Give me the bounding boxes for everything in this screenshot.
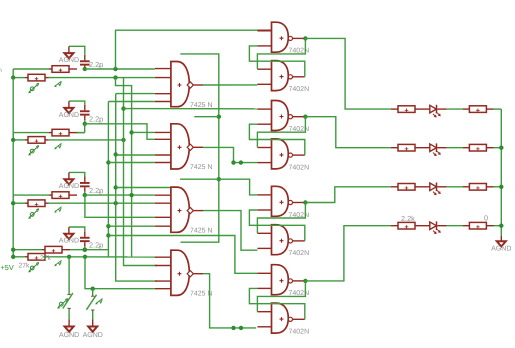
resistor R9 <box>391 108 398 110</box>
node A1 output <box>303 36 307 40</box>
wire VA top to gate1.in4 <box>108 101 154 103</box>
ground AGND S1 <box>65 327 74 332</box>
resistor R15 <box>463 186 469 188</box>
ground AGND S2 <box>88 327 97 332</box>
wire latch A out to LED row1 <box>305 38 391 109</box>
node C1 output <box>303 200 307 204</box>
wire latch B out to LED row2 <box>305 117 391 148</box>
diode LED4 <box>430 222 437 230</box>
resistor R10 <box>391 147 398 149</box>
svg-text:27k: 27k <box>19 263 31 270</box>
wire channel 4 left bend <box>12 250 14 257</box>
wire VD tap to gate2.in1 <box>129 130 133 134</box>
wire C3 top to AGND <box>69 172 85 176</box>
net label channel 2 <box>29 145 39 154</box>
resistor R16 <box>463 225 469 227</box>
wire D cross-couple 1 <box>257 281 305 312</box>
wire D cross-couple 2 <box>249 288 304 319</box>
resistor R3a <box>13 194 49 196</box>
svg-text:AGND: AGND <box>59 238 79 245</box>
wire C cross-couple 2 <box>249 210 304 241</box>
wire R16 to ground rail <box>494 225 502 227</box>
wire channel 3 left bend <box>12 195 14 203</box>
wire VD riser from ch1 row2 <box>116 78 132 257</box>
node C4 junction <box>83 248 87 252</box>
diode LED3 <box>430 183 437 191</box>
svg-text:0: 0 <box>484 214 488 223</box>
transistor substitute: 7402 NOR gate B1 <box>257 108 271 110</box>
op-amp substitute: 7425 NOR gate U1B <box>155 131 171 133</box>
wire ch4 row2 down to gate4.in4 <box>85 257 155 289</box>
wire ch3 row2 to gate3.in2 <box>49 202 155 204</box>
wire channel 2 left bend <box>12 133 14 140</box>
wire VA tap gate2.in4 <box>108 162 154 164</box>
wire latch D out to LED row4 <box>305 226 391 281</box>
capacitor C1 2.2n <box>84 55 86 61</box>
wire gate3 out to latch C <box>203 211 257 251</box>
svg-text:7402N: 7402N <box>289 164 310 171</box>
wire C cross-couple 1 <box>257 203 305 234</box>
resistor R1a <box>13 68 49 70</box>
wire B cross-couple 2 <box>249 124 304 155</box>
wire latch C out to LED row3 <box>305 187 391 203</box>
wire R15 to ground rail <box>494 186 502 188</box>
svg-text:7402N: 7402N <box>289 329 310 336</box>
wire VB tap gate3 strobe <box>116 187 171 189</box>
wire ch2 row1 bend up to cap junction <box>77 132 85 134</box>
svg-text:AGND: AGND <box>83 332 103 339</box>
wire A cross-couple 1 <box>257 38 305 69</box>
wire LED1 to R13 <box>447 108 463 110</box>
wire strobe tap to 7402 C1 input <box>180 179 257 195</box>
wire channel 1 left bend <box>12 69 14 78</box>
ground AGND channel 1 <box>64 53 73 58</box>
wire gate4 out to latch D <box>203 274 256 328</box>
diode LED1 <box>430 105 437 113</box>
svg-text:AGND: AGND <box>59 183 79 190</box>
resistor R1b <box>13 77 25 79</box>
svg-text:7425 N: 7425 N <box>190 228 213 235</box>
node B1 output <box>303 115 307 119</box>
wire VA vertical <box>107 102 109 258</box>
transistor substitute: 7402 NOR gate A2 <box>257 68 271 70</box>
ground AGND right <box>497 241 506 246</box>
wire left supply bus <box>12 78 14 257</box>
wire ch2 row2 to VC <box>49 139 124 141</box>
op-amp substitute: 7425 NOR gate U1C <box>155 194 171 196</box>
node C1 junction <box>83 67 87 71</box>
transistor substitute: 7402 NOR gate B2 <box>257 147 271 149</box>
wire VB top to gate1.in3 <box>116 93 155 95</box>
resistor R2b <box>13 139 25 141</box>
resistor R2a <box>13 132 49 134</box>
wire ch3 junction down to gate3.in3 <box>85 195 155 217</box>
wire C1 top to AGND <box>69 46 85 55</box>
wire ch1 row1 to gate1.in1 and top loop <box>85 68 155 70</box>
wire VB vertical <box>116 94 157 282</box>
svg-text:27k: 27k <box>40 255 52 262</box>
wire C2 top to AGND <box>69 101 85 105</box>
wire strobe net above gates <box>180 54 219 242</box>
wire R13 to ground rail <box>494 108 502 110</box>
transistor substitute: 7402 NOR gate A1 <box>257 30 271 32</box>
transistor substitute: 7402 NOR gate D1 <box>257 272 271 274</box>
node D1 output <box>303 279 307 283</box>
wire VA tap gate3.in4 <box>108 225 154 227</box>
svg-text:7425 N: 7425 N <box>190 164 213 171</box>
net label channel 1 <box>29 83 39 92</box>
svg-text:AGND: AGND <box>491 246 511 253</box>
wire VA tap to 7402 D1 input <box>108 236 257 274</box>
svg-text:AGND: AGND <box>59 112 79 119</box>
net label channel 3 <box>29 209 39 218</box>
svg-text:AGND: AGND <box>59 332 79 339</box>
svg-text:7402N: 7402N <box>289 250 310 257</box>
wire A cross-couple 2 <box>249 46 304 77</box>
diode LED2 <box>430 144 437 152</box>
resistor R12 <box>391 225 398 227</box>
wire LED4 to R16 <box>447 225 463 227</box>
svg-text:7402N: 7402N <box>289 86 310 93</box>
switch S1 <box>68 257 70 294</box>
wire B cross-couple 1 <box>257 117 305 148</box>
wire LED3 to R15 <box>447 186 463 188</box>
wire ch4 row1 <box>70 249 108 251</box>
svg-text:+5V: +5V <box>1 263 14 272</box>
transistor substitute: 7402 NOR gate D2 <box>257 311 271 313</box>
wire gate2 out to latch B <box>203 147 257 162</box>
transistor substitute: 7402 NOR gate C2 <box>257 232 271 234</box>
wire ch2 main to gate2.in2 via corner <box>85 124 157 140</box>
svg-text:h: h <box>0 67 2 74</box>
wire LED2 to R14 <box>447 147 463 149</box>
svg-text:2.2k: 2.2k <box>401 214 415 223</box>
node C2 junction <box>83 122 87 126</box>
node C3 junction <box>83 193 87 197</box>
net label channel 4 <box>29 262 39 271</box>
resistor R14 <box>463 147 469 149</box>
op-amp substitute: 7425 NOR gate U1D <box>155 256 171 258</box>
resistor R11 <box>391 186 398 188</box>
svg-text:7425 N: 7425 N <box>190 102 213 109</box>
capacitor C4 2.2n <box>84 231 86 237</box>
transistor substitute: 7402 NOR gate C1 <box>257 194 271 196</box>
wire ch1 row2 to gate1.in2 <box>49 77 155 79</box>
ground AGND channel 2 <box>64 108 73 113</box>
wire R14 to ground rail <box>494 147 502 149</box>
capacitor C2 2.2n <box>84 105 86 111</box>
wire gate1 out to latch A <box>203 84 257 86</box>
wire VC tap to 7402 B1 input <box>124 108 258 110</box>
op-amp substitute: 7425 NOR gate U1A <box>155 68 171 70</box>
resistor R4b <box>13 256 25 258</box>
resistor R4a <box>13 249 42 251</box>
ground AGND channel 3 <box>64 179 73 184</box>
switch S2 <box>92 289 94 296</box>
wire VC vertical <box>124 78 158 266</box>
wire right ground rail <box>500 109 502 236</box>
svg-text:AGND: AGND <box>59 57 79 64</box>
ground AGND channel 4 <box>64 234 73 239</box>
wire C4 top to AGND <box>69 227 85 231</box>
wire ch4 row2 to gate4.in1 <box>43 256 157 258</box>
wire VB tap gate2.in3 <box>116 154 155 156</box>
resistor R13 <box>463 108 469 110</box>
wire ch3 row1 to gate3.in1 <box>85 194 155 196</box>
resistor R3b <box>13 202 25 204</box>
capacitor C3 2.2n <box>84 177 86 183</box>
